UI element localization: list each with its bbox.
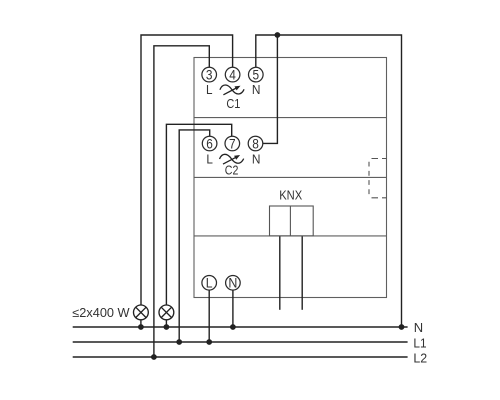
terminal 8: [248, 135, 263, 151]
svg-text:N: N: [414, 320, 423, 335]
section divider below C1: [194, 117, 387, 119]
wire lamp E1 to N rail: [140, 319, 142, 327]
junction terminal 3 wire / L2 rail: [151, 354, 157, 360]
net L2 rail: [73, 356, 408, 358]
junction terminal L / L1 rail: [206, 339, 212, 345]
dimmer symbol C2: [220, 154, 244, 164]
svg-text:4: 4: [229, 67, 236, 83]
wire lamp E1 to terminal 4: [141, 35, 233, 306]
svg-text:8: 8: [252, 135, 259, 151]
section divider below KNX area: [194, 235, 387, 237]
wire KNX bus -: [301, 236, 303, 310]
lamp E2: [159, 305, 174, 320]
junction terminal N / N rail: [230, 324, 236, 330]
svg-text:5: 5: [253, 67, 260, 83]
terminal 5: [249, 67, 264, 83]
svg-text:3: 3: [206, 67, 213, 83]
wire terminal 8 to node at top: [263, 35, 278, 143]
device box U1: [194, 58, 387, 298]
KNX bus terminal block: [270, 206, 314, 236]
wire lamp E2 to terminal 7: [166, 124, 231, 305]
svg-text:7: 7: [229, 135, 236, 151]
terminal L: [202, 275, 217, 291]
svg-text:KNX: KNX: [279, 189, 303, 203]
svg-text:C1: C1: [226, 97, 240, 111]
wire L1 rail to terminal 6: [179, 130, 210, 342]
svg-text:N: N: [228, 275, 237, 291]
net N rail: [73, 326, 408, 328]
section divider below C2: [194, 176, 387, 178]
lamp E1: [134, 305, 149, 320]
svg-text:L: L: [206, 275, 213, 291]
svg-text:C2: C2: [225, 163, 239, 177]
wire KNX bus +: [279, 236, 281, 310]
terminal 4: [225, 67, 240, 83]
svg-text:N: N: [252, 83, 261, 97]
junction lamp E1 / N rail: [138, 324, 144, 330]
wire L2 rail to terminal 3: [154, 46, 209, 357]
dimmer symbol C1: [220, 85, 244, 95]
extension connector (dashed): [369, 159, 387, 198]
terminal N: [226, 275, 241, 291]
wire lamp E2 to N rail: [165, 319, 167, 327]
junction terminal 6 wire / L1 rail: [176, 339, 182, 345]
junction T8/T5 node: [275, 32, 281, 38]
svg-text:6: 6: [206, 135, 213, 151]
terminal 3: [202, 67, 217, 83]
terminal 6: [202, 135, 217, 151]
wire terminal N to N rail: [232, 290, 234, 327]
svg-text:N: N: [252, 152, 261, 166]
junction right wire / N rail: [399, 324, 405, 330]
svg-text:≤2x400 W: ≤2x400 W: [72, 306, 129, 320]
wire terminal L to L1 rail: [208, 290, 210, 342]
terminal 7: [225, 135, 240, 151]
net L1 rail: [73, 341, 408, 343]
wire terminal 5 to N rail (right side): [256, 35, 402, 327]
svg-text:L2: L2: [413, 350, 427, 365]
junction lamp E2 / N rail: [164, 324, 170, 330]
svg-text:L: L: [206, 152, 213, 166]
svg-text:L: L: [206, 83, 213, 97]
svg-text:L1: L1: [413, 335, 426, 350]
